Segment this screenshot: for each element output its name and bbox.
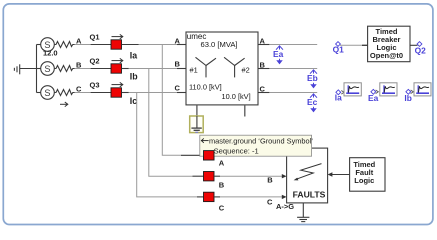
- fault breaker A (on top of tooltip): [204, 151, 215, 160]
- wire (phase C secondary): [258, 92, 269, 94]
- svg-text:C: C: [260, 85, 266, 94]
- arrow (above breaker Q1): [112, 34, 123, 38]
- source Vc: [37, 86, 55, 100]
- wire (phase C drop to fault row C): [137, 93, 197, 197]
- tooltip (master.ground hover): [200, 135, 313, 156]
- block FAULTS: [287, 148, 328, 203]
- svg-text:Sequence: -1: Sequence: -1: [214, 146, 259, 155]
- winding Y #2: [224, 57, 245, 77]
- svg-text:A: A: [175, 37, 181, 46]
- fault breaker C: [204, 192, 215, 201]
- svg-text:Ia: Ia: [130, 51, 137, 61]
- block U2: Timed Fault Logic: [350, 158, 385, 192]
- wire (transformer #2 neutral stub): [244, 105, 246, 117]
- meter scope Ib: [404, 83, 431, 103]
- source Vb: [37, 62, 55, 76]
- signal tag Q1: [333, 42, 345, 55]
- fault breaker B: [204, 172, 215, 181]
- svg-text:12.0: 12.0: [43, 49, 58, 58]
- wire (Timed Fault Logic to FAULTS): [331, 174, 350, 176]
- wire (phase A secondary): [258, 44, 269, 46]
- wire (Q1 to Timed Breaker Logic): [340, 44, 368, 46]
- svg-text:B: B: [267, 175, 273, 184]
- svg-text:Ea: Ea: [368, 93, 379, 103]
- block U1: Timed Breaker Logic: [368, 26, 410, 62]
- wire (breaker Q1 to transformer): [122, 44, 139, 46]
- signal tag Q2: [415, 42, 427, 56]
- wire (phase A drop to fault row A): [162, 45, 181, 156]
- fault breaker A: [204, 151, 215, 160]
- svg-text:63.0 [MVA]: 63.0 [MVA]: [201, 40, 238, 49]
- svg-text:master.ground ‘Ground Symbol’: master.ground ‘Ground Symbol’: [209, 136, 313, 145]
- svg-text:Ib: Ib: [404, 93, 411, 103]
- wire (phase B to breaker): [75, 68, 91, 70]
- transformer T1 (umec): [186, 32, 258, 105]
- svg-text:#2: #2: [242, 65, 250, 74]
- svg-text:Ea: Ea: [273, 49, 284, 59]
- voltmeter Eb: [307, 70, 318, 88]
- wire (transformer #1 neutral stub): [196, 105, 198, 117]
- wire (Timed Breaker Logic to Q2): [410, 44, 418, 46]
- ground (below FAULTS): [297, 203, 309, 222]
- fault symbol (lightning arrow): [294, 164, 322, 181]
- wire (phase B drop to fault row B): [149, 69, 193, 177]
- svg-text:C: C: [267, 198, 273, 207]
- voltmeter Ea: [273, 46, 284, 64]
- svg-text:C: C: [175, 84, 181, 93]
- svg-text:B: B: [175, 60, 181, 69]
- wire (fault C to FAULTS box): [214, 196, 220, 198]
- svg-text:S: S: [44, 88, 50, 98]
- wire (phase C to breaker): [75, 92, 91, 94]
- arrow (C input): [282, 195, 287, 199]
- svg-text:110.0 [kV]: 110.0 [kV]: [189, 82, 222, 91]
- svg-text:A->G: A->G: [276, 202, 294, 211]
- svg-text:10.0 [kV]: 10.0 [kV]: [222, 92, 251, 101]
- winding Y #1: [196, 57, 217, 77]
- svg-text:Q2: Q2: [415, 45, 427, 55]
- voltmeter Ec: [307, 94, 318, 112]
- svg-text:Q2: Q2: [90, 57, 100, 66]
- svg-text:Ib: Ib: [130, 72, 138, 82]
- svg-text:Q1: Q1: [90, 33, 100, 42]
- svg-text:Q1: Q1: [333, 44, 345, 54]
- svg-text:Q3: Q3: [90, 81, 100, 90]
- breaker Q2: [111, 64, 122, 73]
- svg-text:Ec: Ec: [307, 97, 318, 107]
- svg-text:Eb: Eb: [307, 73, 318, 83]
- svg-text:Ia: Ia: [335, 93, 342, 103]
- svg-text:A: A: [260, 37, 266, 46]
- arrow (above breaker Q3): [112, 82, 123, 86]
- wire (fault A to FAULTS box): [214, 154, 220, 156]
- arrow (below source C): [60, 102, 68, 107]
- svg-text:FAULTS: FAULTS: [293, 190, 326, 200]
- svg-text:B: B: [260, 61, 266, 70]
- svg-text:C: C: [219, 204, 225, 213]
- meter scope Ea: [368, 83, 397, 103]
- wire (source bus vertical): [36, 45, 38, 93]
- ground (left, sources neutral): [14, 64, 19, 74]
- breaker Q3: [111, 88, 122, 97]
- wire (phase A to breaker): [75, 44, 91, 46]
- svg-text:S: S: [44, 64, 50, 74]
- ground symbol (selected, olive box): [190, 116, 204, 133]
- arrow (above breaker Q2): [112, 58, 123, 62]
- arrow (B input): [282, 174, 287, 178]
- svg-text:Open@t0: Open@t0: [370, 51, 403, 60]
- wire (breaker Q2 to transformer): [122, 68, 129, 70]
- svg-text:#1: #1: [190, 65, 198, 74]
- svg-text:B: B: [219, 180, 225, 189]
- breaker Q1: [111, 40, 122, 49]
- svg-text:Logic: Logic: [354, 176, 374, 185]
- resistor Rb: [54, 66, 74, 72]
- wire (breaker Q3 to transformer): [122, 92, 129, 94]
- wire (fault B to FAULTS box): [214, 175, 220, 177]
- resistor Rc: [54, 90, 74, 96]
- arrow (fault control input): [328, 172, 333, 176]
- source Va: [37, 38, 55, 52]
- meter scope Ia: [335, 83, 362, 103]
- wire (phase B secondary): [258, 68, 269, 70]
- svg-text:A: A: [219, 158, 225, 167]
- resistor Ra: [54, 42, 74, 48]
- svg-text:Ic: Ic: [130, 96, 137, 106]
- wire (ground to source bus): [20, 68, 37, 70]
